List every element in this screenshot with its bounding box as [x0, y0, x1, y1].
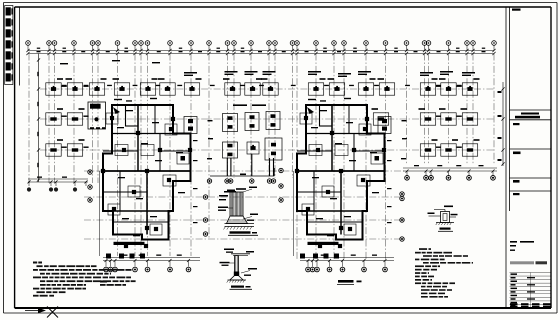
pile caps row A — [46, 78, 480, 95]
axis bubbles right of unit1 — [203, 195, 207, 236]
unit2 left edge dim line — [293, 171, 295, 256]
unit1 bottom dimension and bubbles — [103, 255, 200, 272]
beam annotation labels — [60, 60, 475, 77]
inter-cap dimension specks — [62, 85, 462, 160]
unit2 caption — [337, 280, 362, 284]
right edge dimension line — [498, 82, 505, 166]
axis bubbles left of unit1 — [88, 170, 92, 202]
drawing registration mark — [25, 307, 58, 318]
horizontal axis grid lines — [40, 89, 494, 239]
title block dividers — [506, 7, 551, 308]
unit1 left edge dim line — [99, 171, 101, 256]
right wing dimension and bubbles — [403, 165, 497, 180]
vertical axis grid lines — [29, 54, 494, 261]
footing detail 2 — [220, 249, 258, 290]
wall detail DQ-1 — [428, 206, 458, 232]
footing detail 1 — [218, 187, 258, 236]
building unit 2 shear walls — [295, 98, 392, 259]
top dimension chain — [26, 48, 495, 56]
axis bubbles right of unit2 — [400, 192, 404, 241]
building unit 1 shear walls — [101, 98, 198, 259]
axis bubbles left of unit2 — [279, 168, 283, 202]
pile caps row B — [46, 102, 478, 129]
revision stamp strip — [5, 6, 20, 86]
title block project text — [510, 241, 547, 264]
pile splice notes text block — [415, 248, 473, 297]
left dimension line — [37, 54, 40, 183]
unit2 bottom dimension and bubbles — [300, 255, 394, 272]
title block table — [510, 273, 552, 309]
unit1 caption — [100, 281, 126, 286]
general notes text block — [33, 262, 136, 297]
top axis bubbles row — [26, 41, 497, 51]
between-units caps and walls — [207, 104, 282, 192]
left wing bottom dimension and bubbles — [27, 177, 88, 192]
pile caps row C — [46, 139, 480, 156]
